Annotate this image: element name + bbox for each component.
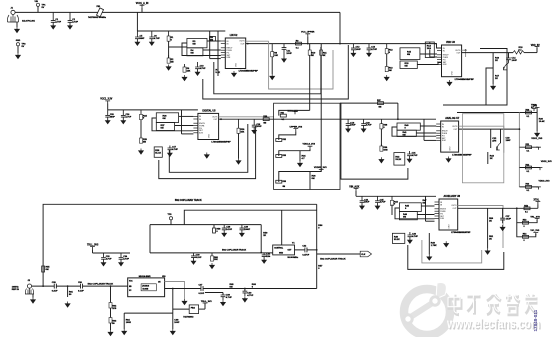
- svg-text:2K: 2K: [489, 221, 492, 223]
- wire branch TRL: [517, 208, 537, 222]
- resistor R2: [168, 55, 170, 63]
- wire net1 to pin: [210, 58, 221, 60]
- wire R18 to flag: [524, 52, 537, 54]
- resistor R48 box: [392, 233, 404, 243]
- resistor network box R14: [425, 42, 434, 58]
- wire bypass down: [397, 103, 399, 119]
- svg-text:142-0701-801: 142-0701-801: [22, 20, 36, 23]
- wire U3 OUTS drop: [465, 50, 467, 57]
- svg-text:10UF: 10UF: [256, 126, 262, 128]
- flag TP10: [532, 109, 537, 112]
- capacitor C28: [222, 225, 227, 234]
- wire bias left: [279, 110, 288, 115]
- svg-text:OUTS: OUTS: [452, 126, 458, 128]
- regulator U5: [193, 109, 218, 139]
- wire guard2: [443, 49, 507, 106]
- svg-text:GND: GND: [208, 133, 210, 138]
- wire R15b to pin: [417, 63, 441, 65]
- svg-text:50Ω COPLANAR TRACK: 50Ω COPLANAR TRACK: [88, 283, 114, 286]
- resistor network box R27: [156, 123, 174, 131]
- ground R2: [166, 65, 171, 71]
- wire J2 gnd: [32, 294, 34, 298]
- svg-text:GND: GND: [452, 71, 454, 76]
- capacitor C11 10UF: [282, 44, 287, 59]
- svg-text:50Ω COPLANAR TRACK: 50Ω COPLANAR TRACK: [175, 199, 202, 202]
- wire c39 stub: [222, 293, 224, 296]
- wire C22: [490, 129, 492, 148]
- ground U8: [444, 241, 449, 247]
- flag TRLL_3V3: [90, 247, 95, 250]
- wire top rail: [15, 11, 340, 13]
- svg-text:VIN: VIN: [35, 1, 39, 3]
- wire branch3: [519, 186, 538, 188]
- svg-text:5K: 5K: [323, 55, 326, 57]
- svg-text:2K: 2K: [489, 238, 492, 240]
- wire U8 OUTS: [458, 206, 503, 249]
- svg-text:47N: 47N: [492, 140, 496, 143]
- resistor network box R45: [399, 203, 421, 212]
- resistor R54 body: [523, 235, 529, 238]
- ground fb U8: [485, 249, 490, 255]
- svg-text:0.1UF: 0.1UF: [196, 257, 202, 259]
- node bottom: [244, 288, 246, 290]
- svg-text:LT3045EMSE#PBF: LT3045EMSE#PBF: [451, 231, 471, 234]
- wire branch2: [519, 167, 540, 169]
- wire bias net: [288, 109, 310, 111]
- resistor R13: [386, 66, 388, 72]
- wire fb2 left: [173, 308, 189, 310]
- ground U3: [447, 80, 452, 86]
- svg-text:742792662: 742792662: [183, 316, 194, 319]
- wire VCC1_A_IN flag: [141, 8, 143, 13]
- power flag VCC1_A_IN: [140, 5, 145, 8]
- resistor R60: [211, 253, 213, 261]
- wire xo box top: [184, 210, 316, 224]
- wire 3v3 line: [457, 112, 537, 114]
- resistor network box R46: [399, 212, 417, 220]
- wire net3 to pin d: [182, 133, 194, 135]
- svg-text:2K: 2K: [495, 60, 498, 62]
- wire R34: [299, 151, 301, 161]
- svg-text:4.7UF: 4.7UF: [123, 257, 129, 260]
- svg-text:4.7UF: 4.7UF: [106, 257, 112, 260]
- svg-text:10UF: 10UF: [286, 53, 292, 55]
- svg-text:10K: 10K: [241, 132, 245, 134]
- svg-text:VCC1_A_IN: VCC1_A_IN: [136, 2, 149, 5]
- svg-text:100P: 100P: [174, 322, 180, 324]
- flag BIAS_3V3: [293, 112, 298, 115]
- wire guard5 outer: [408, 245, 504, 269]
- resistor R22 body: [526, 166, 532, 169]
- ground fb divider: [491, 84, 496, 90]
- node Y1 in: [260, 252, 262, 254]
- svg-text:VIO_3V3: VIO_3V3: [530, 230, 540, 232]
- svg-text:10UF: 10UF: [350, 125, 356, 127]
- ground R6: [182, 75, 187, 81]
- wire U3 OUTS: [462, 49, 466, 51]
- wire lower rail: [150, 252, 273, 254]
- wire aux rail: [356, 195, 436, 197]
- resistor R6: [184, 64, 186, 72]
- svg-text:GND: GND: [16, 40, 21, 42]
- wire R62: [110, 286, 112, 330]
- resistor R24: [140, 110, 142, 120]
- wire U10 bl: [123, 313, 125, 329]
- wire R14 to pin: [430, 50, 437, 58]
- wire U3 OUT: [462, 52, 513, 54]
- svg-text:VDD1_3V3: VDD1_3V3: [531, 138, 543, 140]
- wire guard3 outer: [159, 126, 256, 179]
- ground U10 b: [170, 329, 175, 335]
- svg-text:0M: 0M: [379, 106, 382, 108]
- svg-text:0M: 0M: [161, 127, 164, 129]
- wire coplanar loop: [43, 204, 317, 286]
- wire C23: [500, 129, 502, 143]
- wire guard1 outer: [203, 45, 348, 99]
- wire refclk: [317, 253, 361, 255]
- wire net4 to pin a: [420, 125, 436, 127]
- svg-text:0M: 0M: [403, 217, 406, 219]
- connector J1 shell: [7, 15, 18, 23]
- wire network to pins a: [207, 40, 221, 42]
- wire net4 to pin b: [416, 132, 436, 134]
- wire net4 vertical: [423, 119, 425, 140]
- ground R34: [298, 161, 303, 167]
- svg-text:CONTROL: CONTROL: [274, 248, 284, 250]
- resistor R29 10K: [238, 119, 240, 133]
- svg-text:10.4K: 10.4K: [539, 120, 545, 123]
- svg-text:5K: 5K: [311, 55, 314, 57]
- svg-text:10M: 10M: [383, 149, 387, 151]
- resistor network box R15: [400, 48, 420, 60]
- wire R7: [217, 68, 219, 76]
- resistor R9 body: [296, 42, 302, 45]
- flag XTAL: [536, 202, 541, 205]
- svg-text:VDDRF_3V3: VDDRF_3V3: [314, 167, 327, 169]
- resistor R32 body: [276, 139, 282, 142]
- svg-text:10UF: 10UF: [512, 60, 518, 62]
- ground R25: [139, 149, 144, 155]
- wire net3 to pin a: [179, 115, 194, 117]
- svg-text:R33: R33: [283, 155, 286, 157]
- wire U5 OUT: [219, 118, 340, 120]
- ground TP2: [16, 53, 21, 59]
- wire block1 drop: [136, 12, 138, 31]
- ground U5: [204, 153, 209, 159]
- svg-text:0: 0: [524, 240, 525, 242]
- wire block1 input rail: [137, 30, 225, 32]
- resistor network box R15b: [400, 61, 417, 69]
- svg-text:5M: 5M: [171, 61, 174, 63]
- resistor R37 body: [378, 102, 384, 105]
- node VCC_UPPER: [307, 43, 309, 45]
- svg-text:GND: GND: [448, 224, 450, 229]
- wire C27: [502, 208, 504, 218]
- watermark elecfans logo: [404, 283, 450, 336]
- wire U10 bottom link: [124, 312, 173, 314]
- svg-text:R31: R31: [281, 113, 284, 115]
- svg-text:GND: GND: [279, 253, 284, 255]
- wire TP2 down: [17, 46, 19, 53]
- wire C40: [244, 289, 246, 292]
- resistor R12: [386, 44, 388, 54]
- flag UPPER_3V3: [293, 129, 298, 132]
- svg-text:680P: 680P: [110, 116, 115, 118]
- svg-text:XTAL: XTAL: [534, 198, 540, 201]
- svg-text:1.78K: 1.78K: [431, 245, 437, 247]
- ferrite bead FB1: [96, 8, 103, 17]
- svg-text:U10: U10: [162, 276, 165, 278]
- wire net5 to pin b: [417, 214, 434, 216]
- wire TP5 stem: [170, 220, 172, 225]
- svg-text:4.7UF: 4.7UF: [55, 21, 61, 24]
- svg-text:1000P: 1000P: [244, 229, 251, 231]
- power flag VIN_AUX: [354, 188, 359, 191]
- svg-text:R53: R53: [523, 220, 526, 222]
- node U2 out: [247, 43, 249, 45]
- wire R8 down: [271, 57, 273, 74]
- wire network to pins c: [182, 43, 221, 56]
- wire vddrf net: [279, 172, 321, 183]
- capacitor C18 10UF: [252, 119, 257, 130]
- resistor R53 body: [523, 221, 529, 224]
- wire OUTS guard: [269, 41, 333, 89]
- svg-text:0M: 0M: [405, 66, 408, 68]
- capacitor C1: [51, 12, 56, 25]
- wire bypass top: [340, 102, 398, 104]
- wire Y1 out: [295, 249, 317, 251]
- resistor R33 body: [276, 155, 282, 158]
- wire network to pins b: [203, 49, 221, 51]
- capacitor C15: [105, 110, 110, 121]
- wire rail to U3 pin: [434, 44, 441, 48]
- wire fb tap: [443, 68, 493, 105]
- wire net3 to pin b: [175, 125, 194, 127]
- wire upper net: [279, 131, 296, 140]
- svg-text:10UF: 10UF: [506, 219, 512, 221]
- ferrite FB2 box: [189, 305, 198, 314]
- wire net5 to pin d: [426, 220, 435, 222]
- wire trll rail: [93, 252, 131, 254]
- capacitor C29: [240, 225, 245, 234]
- wire net4 to pin d: [424, 139, 436, 141]
- svg-text:ILIM: ILIM: [227, 57, 231, 59]
- resistor R28 box: [154, 147, 162, 157]
- connector J2 shell: [25, 288, 34, 294]
- wire trll stem: [92, 249, 94, 253]
- resistor network box R3: [187, 39, 207, 48]
- node U10 out: [172, 288, 174, 290]
- wire vertical net2: [217, 31, 219, 68]
- node U7 out: [519, 128, 521, 130]
- ground U10 a: [122, 329, 127, 335]
- svg-text:33.2K: 33.2K: [394, 239, 400, 241]
- svg-text:0M: 0M: [407, 54, 410, 56]
- svg-text:680P: 680P: [140, 38, 145, 40]
- capacitor C26: [408, 232, 413, 240]
- wire top rail corner down: [339, 12, 341, 43]
- svg-text:0M: 0M: [193, 44, 196, 46]
- node U3 outs: [465, 49, 467, 51]
- capacitor C35 series: [54, 284, 56, 289]
- svg-text:OUTS: OUTS: [239, 41, 245, 43]
- ground R29: [236, 159, 241, 165]
- wire TP1 to rail: [37, 6, 39, 12]
- capacitor C2: [68, 12, 73, 25]
- svg-text:0M: 0M: [46, 269, 49, 271]
- oscillator U10 box: [128, 278, 165, 297]
- svg-text:4.7UF: 4.7UF: [366, 124, 372, 127]
- wire fb2 up: [204, 304, 206, 310]
- svg-text:150P: 150P: [506, 140, 512, 142]
- ground C40: [243, 296, 248, 302]
- svg-text:LT3045EMSE#PBF: LT3045EMSE#PBF: [239, 70, 259, 73]
- svg-text:2K: 2K: [495, 78, 498, 80]
- svg-text:4.7UF: 4.7UF: [247, 294, 254, 297]
- svg-text:LT3042EMSE#PBF: LT3042EMSE#PBF: [211, 141, 231, 144]
- svg-text:0M: 0M: [263, 123, 266, 125]
- svg-text:VCC_UPPER: VCC_UPPER: [301, 32, 315, 34]
- wire 3v3 flag stem: [536, 110, 538, 113]
- node block4 in: [397, 118, 399, 120]
- wire fb2 right: [199, 308, 205, 310]
- svg-text:0M: 0M: [389, 70, 392, 72]
- capacitor C33: [101, 253, 106, 263]
- ground J2: [31, 298, 36, 304]
- wire vertical net1: [209, 31, 211, 59]
- wire R38 down: [380, 129, 382, 146]
- crystal Y1 box: [273, 245, 295, 255]
- svg-text:4.7UF: 4.7UF: [72, 21, 78, 24]
- wire R43: [487, 152, 489, 164]
- net flag REF_CLK: [360, 251, 371, 257]
- ground R39: [379, 157, 384, 163]
- capacitor C20: [361, 119, 366, 129]
- svg-text:24K: 24K: [187, 69, 191, 72]
- svg-text:33.2K: 33.2K: [395, 159, 401, 161]
- wire tpll rail: [150, 224, 261, 226]
- wire R61: [67, 286, 69, 297]
- wire divider R11: [320, 44, 322, 172]
- wire R29 down: [238, 133, 240, 158]
- resistor network box R26: [156, 113, 178, 123]
- wire U8 OUT: [458, 207, 538, 209]
- svg-text:0.1: 0.1: [282, 119, 285, 121]
- capacitor C5: [135, 31, 140, 42]
- capacitor C13 4.7UF: [367, 44, 372, 54]
- wire block4 rail: [340, 118, 436, 120]
- capacitor C12 10UF: [351, 44, 356, 54]
- resistor R39: [380, 144, 382, 151]
- wire tpll left drop: [149, 225, 151, 253]
- wire block3 input rail: [108, 109, 198, 111]
- svg-text:4.7UF: 4.7UF: [126, 115, 132, 118]
- wire flag to rail3: [107, 104, 109, 110]
- wire C14 stub: [508, 53, 510, 58]
- wire vertical net3: [181, 110, 183, 134]
- ground J1: [15, 27, 20, 33]
- capacitor C6: [149, 31, 154, 42]
- flag VIO_3V3: [533, 233, 538, 236]
- regulator U3: [437, 41, 462, 77]
- svg-text:0M: 0M: [312, 178, 315, 180]
- wire R24 down: [140, 120, 142, 138]
- ground R61: [65, 302, 70, 308]
- svg-text:ILIM: ILIM: [442, 140, 446, 142]
- ground R49: [427, 255, 432, 261]
- resistor R31 body: [280, 114, 286, 117]
- wire net3 to pin c: [152, 118, 193, 131]
- wire vddls net: [279, 149, 310, 156]
- node r61: [67, 285, 69, 287]
- wire c39 link: [205, 292, 223, 294]
- svg-text:VDD3_3V3: VDD3_3V3: [539, 180, 551, 182]
- svg-text:10K: 10K: [274, 55, 278, 57]
- resistor network box R40: [397, 123, 420, 130]
- resistor R42 box: [394, 153, 405, 166]
- svg-text:ILIM: ILIM: [443, 64, 447, 66]
- wire U2 OUTS gray: [246, 40, 269, 42]
- ground R13: [384, 75, 389, 81]
- svg-text:M1014-BMR: M1014-BMR: [139, 275, 151, 278]
- wire U7 OUTS: [459, 126, 504, 153]
- wire divider R10: [309, 44, 311, 111]
- capacitor C30: [191, 253, 196, 261]
- capacitor C32 series: [305, 248, 307, 253]
- wire guard4: [341, 103, 408, 179]
- flag VDD1_3V3: [536, 147, 541, 150]
- resistor R52 body: [524, 207, 530, 210]
- resistor R35 body: [276, 180, 282, 183]
- svg-text:0.47UF: 0.47UF: [302, 253, 310, 256]
- ground U2: [232, 71, 237, 77]
- wire into U3 pin: [429, 42, 431, 44]
- wire R15 to pin: [420, 53, 437, 55]
- resistor R58 body: [213, 228, 216, 233]
- guard box block4: [462, 114, 503, 183]
- resistor R5 box: [210, 37, 216, 42]
- svg-text:VCC1_3.3V: VCC1_3.3V: [100, 99, 113, 101]
- power flag VCC_UPPER: [305, 34, 310, 37]
- wire U10 out: [165, 288, 317, 290]
- wire U10 br: [172, 289, 174, 314]
- resistor R30 body: [263, 118, 269, 121]
- svg-text:VDD2_3V3: VDD2_3V3: [541, 161, 553, 163]
- wire guard3 inner: [169, 124, 248, 172]
- svg-text:742792662 600MHz: 742792662 600MHz: [88, 16, 106, 19]
- resistor R19 body: [526, 111, 532, 114]
- wire branch1: [519, 146, 538, 148]
- resistor network box R41: [397, 130, 416, 136]
- ground C39: [221, 300, 226, 306]
- ground R62: [108, 330, 113, 336]
- ground R8: [270, 74, 275, 80]
- svg-text:10UF: 10UF: [356, 49, 362, 51]
- wire R58: [213, 225, 215, 228]
- svg-text:4.7UF: 4.7UF: [200, 67, 206, 70]
- svg-text:4.7UF: 4.7UF: [380, 201, 386, 204]
- flag VDDLS_3V3: [308, 146, 313, 149]
- capacitor C19: [346, 119, 351, 129]
- test point TP1: [36, 3, 39, 6]
- svg-text:LVCMOS: LVCMOS: [142, 285, 150, 287]
- svg-text:51.1K: 51.1K: [155, 153, 161, 155]
- svg-text:10UF: 10UF: [364, 202, 370, 204]
- capacitor C34: [119, 253, 124, 263]
- wire gray bus: [518, 113, 520, 187]
- ground C27: [500, 225, 505, 231]
- wire network to pins d: [169, 46, 187, 48]
